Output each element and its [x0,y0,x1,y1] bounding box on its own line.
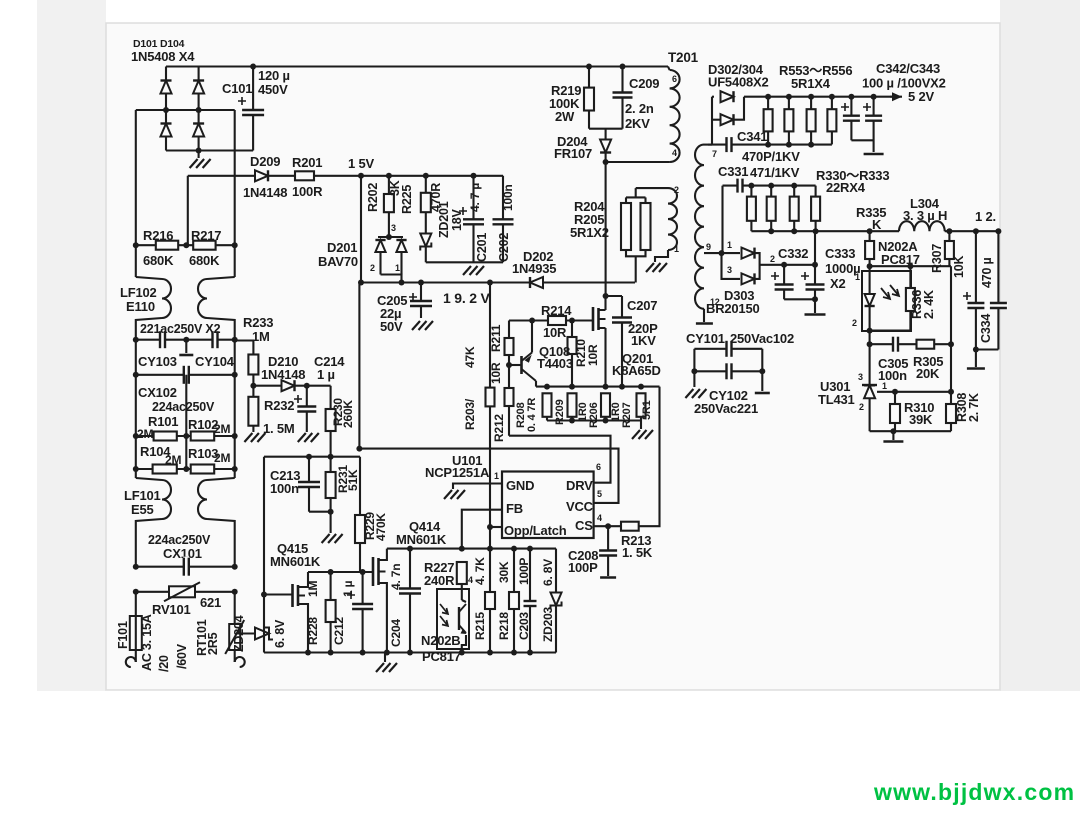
junction R330 tops [748,183,754,189]
capacitor C335 [989,303,1008,309]
junction C333 bottom [812,296,818,302]
wire BAV70 anode join [381,275,402,283]
svg-text:6. 8V: 6. 8V [541,559,555,586]
svg-text:4: 4 [597,513,602,523]
wire N202B collector [462,600,466,602]
junction pin9 [719,250,725,256]
svg-text:5 2V: 5 2V [908,89,934,104]
svg-text:1: 1 [674,244,679,254]
wire divider gnd stub [892,431,894,440]
wire GND pin [453,484,502,490]
svg-text:6: 6 [672,74,677,84]
ground CY101 [685,389,706,398]
junction C101 top [250,64,256,70]
svg-text:10R: 10R [586,344,600,366]
svg-text:BR20150: BR20150 [706,301,760,316]
capacitor CX102 [183,365,189,385]
wire Q415 drain [305,572,308,587]
diode D103 [160,124,171,137]
resistor R331 [767,197,776,221]
wire C342 branch [850,97,852,141]
svg-text:K: K [872,217,882,232]
junction VCC rail [358,280,364,286]
wire mid column [185,375,187,469]
svg-text:K8A65D: K8A65D [612,363,661,378]
svg-text:1N4148: 1N4148 [243,185,287,200]
wire VCC route [359,283,618,503]
wire CY101 top row [694,348,762,350]
svg-text:3: 3 [858,372,863,382]
wire Opp route [490,526,502,528]
wire LF101 right jog top [207,478,235,480]
wire R333 lead [815,186,817,197]
svg-text:6: 6 [596,462,601,472]
resistor R201 [295,171,314,180]
diode D201a [375,240,385,252]
wire comp row [870,343,951,345]
wire R330 lead2 [750,221,752,231]
svg-text:PC817: PC817 [881,252,920,267]
capacitor C333 [805,284,826,290]
diode D210 [282,380,295,391]
wire Q201 drain [604,296,606,310]
wire Q414 gate row [308,571,373,573]
junction C213 bottom [328,509,334,515]
svg-text:250Vac102: 250Vac102 [730,331,794,346]
svg-text:5R1X4: 5R1X4 [791,76,831,91]
wire R233 bottom [252,375,254,386]
wire RV101 row [136,591,235,593]
wire R219 branch [588,67,590,88]
wire BAV70 cathode bar row [378,236,403,238]
svg-text:ZD201: ZD201 [437,201,451,238]
inductor L304 [899,221,945,231]
svg-text:6. 8V: 6. 8V [273,619,287,648]
wire BAV70 anode right [400,252,402,275]
wire divider vertical [950,266,952,404]
capacitor C342 [842,115,861,121]
diode D102 [193,81,204,94]
svg-text:R207: R207 [621,402,633,428]
wire gate row [509,319,593,321]
wire CY101 right [761,349,763,391]
svg-text:CX101: CX101 [163,546,202,561]
wire R232 branch [252,386,254,432]
svg-text:C333: C333 [825,246,855,261]
junction R202 R225 top [386,173,392,179]
svg-text:C331: C331 [718,164,748,179]
shunt regulator U301 TL431 [864,385,875,398]
wire Q201 source [604,328,606,387]
capacitor C213 [297,482,321,488]
svg-text:1N4935: 1N4935 [512,261,556,276]
capacitor C101 [241,110,265,116]
svg-text:TL431: TL431 [818,392,855,407]
wire R330 lead [750,186,752,197]
wire R225 branch [425,176,427,193]
svg-text:260K: 260K [341,400,355,428]
wire C334 bottom join [976,348,999,350]
wire R336 branch [909,266,911,330]
capacitor CY104 [212,330,218,349]
wire R101 row [136,435,235,437]
svg-text:R211: R211 [489,324,503,352]
inductor LF101 right [198,480,207,519]
capacitor C202 [492,219,515,225]
svg-text:2. 4K: 2. 4K [922,290,936,319]
svg-text:9: 9 [706,242,711,252]
svg-text:2: 2 [859,402,864,412]
wire C343 branch [873,97,875,152]
svg-text:100n: 100n [270,481,299,496]
resistor R217 [193,241,215,250]
resistor R208 [543,393,552,417]
capacitor CY101 [726,340,732,358]
svg-text:4. 7n: 4. 7n [389,564,403,590]
svg-text:1N4148: 1N4148 [261,367,305,382]
wire R332 lead2 [793,221,795,231]
svg-text:224ac250V: 224ac250V [152,400,215,414]
svg-text:1: 1 [395,263,400,273]
svg-text:1 2.: 1 2. [975,209,996,224]
wire C213 bottom join [309,511,331,513]
wire C101 leads [252,67,254,151]
wire pin7 node [711,97,713,145]
resistor R227 [457,562,467,584]
resistor R332 [790,197,799,221]
junction FB row [407,546,413,552]
wire R203 column [489,283,491,449]
svg-text:N202B: N202B [421,633,460,648]
svg-text:C101: C101 [222,81,252,96]
svg-text:LF101: LF101 [124,488,161,503]
wire R310 branch [894,392,896,431]
diode D202 [530,277,543,288]
svg-text:2: 2 [770,254,775,264]
junction D210 row [250,383,256,389]
svg-text:1 5V: 1 5V [348,156,374,171]
svg-text:R202: R202 [366,183,380,212]
resistor R555 [807,109,816,131]
svg-text:100P: 100P [568,560,598,575]
wire ZD203 branch [555,549,557,653]
wire D302 cathode join [734,97,745,120]
svg-text:CS: CS [575,518,593,533]
wire R205 lead [644,197,646,203]
svg-text:FB: FB [506,501,523,516]
wire bridge column 1 [165,67,167,151]
ground C333 bar [805,313,826,316]
svg-text:/20: /20 [157,655,171,672]
wire R207 tail [640,417,642,421]
wire R218 branch [513,549,515,653]
capacitor C332 [774,284,795,290]
wire 12V raw rail [760,264,815,266]
svg-text:4. 7K: 4. 7K [473,557,487,585]
wire C331 riser to pin9 [721,186,723,254]
diode D304 [721,114,734,125]
svg-text:51K: 51K [346,469,360,491]
svg-text:1 µ: 1 µ [341,580,355,597]
svg-text:2: 2 [852,318,857,328]
wire Q414 drain [386,549,387,560]
wire C334 gnd stub [975,350,977,368]
wire net A row [264,456,360,458]
svg-text:UF5408X2: UF5408X2 [708,75,769,90]
capacitor C305 [893,336,899,353]
wire F101 lead [135,592,137,662]
svg-text:RV101: RV101 [152,602,191,617]
junction BAV70 top [386,234,392,240]
svg-text:C341: C341 [737,129,767,144]
junction drain node [603,293,609,299]
wire R231 branch [330,457,332,533]
wire C204 branch [409,549,411,653]
wire R331 lead [770,186,772,197]
resistor R335 [865,241,874,259]
svg-text:1: 1 [855,272,860,282]
wire Q108 emitter [531,321,533,353]
junction R101 row [133,433,139,439]
junction bank top [544,384,550,390]
resistor R102 [191,432,215,441]
junction divider bottom [890,428,896,434]
wire C214 branch [306,386,308,432]
svg-text:ZD203: ZD203 [541,606,555,642]
junction C332 top [781,262,787,268]
wire R202 branch [388,176,390,194]
svg-text:C203: C203 [517,612,531,640]
svg-text:/60V: /60V [175,643,189,669]
wire R332 lead [793,186,795,197]
wire 5.2V rail [744,96,902,98]
junction Q108 base [506,362,512,368]
wire secondary pin12 [703,309,705,322]
wire R307 branch [948,231,950,266]
junction CY row [133,337,139,343]
svg-text:R216: R216 [143,228,173,243]
svg-text:R217: R217 [191,228,221,243]
resistor R231 [326,472,336,498]
wire R204 lead [625,197,627,203]
wire R208 tail [546,417,548,421]
capacitor CY102 [726,362,732,380]
junction 5.2V rail [765,94,771,100]
schematic sheet [106,23,1000,690]
resistor R214 [548,316,566,325]
svg-text:1M: 1M [306,581,320,597]
wire C331 row [723,185,816,187]
svg-text:R307: R307 [930,244,944,273]
svg-text:2R5: 2R5 [206,632,220,655]
resistor R101 [154,432,177,441]
wire raw rail riser [814,231,816,265]
svg-text:20K: 20K [916,366,940,381]
wire bridge bottom row [166,149,253,151]
transistor Q108 T4403 [520,356,523,374]
wire bridge mid row [136,109,235,111]
wire 12V filter rail [751,230,899,232]
resistor R213 [621,522,639,531]
junction C334 bottom [973,347,979,353]
wire snubber bottom [589,128,623,130]
resistor R308 [946,404,956,423]
junction CX101 row [133,564,139,570]
watermark www.bjjdwx.com [874,779,1075,806]
wire C205 branch [420,283,422,319]
ground bridge [190,159,211,168]
TL431 gate bar [862,384,877,386]
wire net A left vertical [263,457,265,653]
thermistor RT101 [229,624,240,650]
svg-text:1. 5K: 1. 5K [622,545,653,560]
svg-text:100R: 100R [292,184,323,199]
svg-text:C334: C334 [979,314,993,343]
svg-text:221ac250V X2: 221ac250V X2 [140,322,221,336]
svg-text:T201: T201 [668,50,699,65]
wire R204 bottom node [635,256,637,282]
varistor RV101 [169,586,195,597]
svg-text:1: 1 [727,240,732,250]
wire R216 R217 row [136,244,235,246]
svg-text:471/1KV: 471/1KV [750,165,800,180]
ground bus symbol [376,663,397,672]
svg-text:C204: C204 [389,619,403,647]
capacitor C341 [726,136,732,153]
wire top DC rail [166,65,668,67]
svg-text:2. 7K: 2. 7K [967,393,981,422]
svg-text:C332: C332 [778,246,808,261]
wire zener block bottom [426,261,503,263]
svg-text:R232: R232 [264,398,294,413]
svg-text:CY103: CY103 [138,354,177,369]
ground C343 bar [864,153,884,156]
terminal AC right hook [235,657,245,667]
wire LED bottom row [870,330,911,332]
svg-text:680K: 680K [189,253,220,268]
svg-text:100n: 100n [501,184,515,211]
svg-text:0. 4 7R: 0. 4 7R [526,398,538,432]
resistor R202 [384,194,394,212]
wire R554 lead [788,97,790,110]
wire C213 branch [308,457,310,512]
svg-text:240R: 240R [424,573,455,588]
wire bridge column 2 [198,67,200,151]
wire R209 tail [571,417,573,421]
wire VCC vertical from 15V [360,176,362,283]
junction ground bus [305,650,311,656]
svg-text:100P: 100P [517,558,531,585]
svg-text:R214: R214 [541,303,572,318]
svg-text:22RX4: 22RX4 [826,180,866,195]
junction filter rail [768,228,774,234]
wire R204 top node [635,188,637,197]
wire LF101 left jog bottom [136,519,162,567]
svg-text:Opp/Latch: Opp/Latch [504,523,567,538]
ground aux winding [646,263,667,272]
wire Q415 gate row [264,593,293,595]
wire R219 bottom [588,111,590,129]
resistor R229 [355,515,365,543]
svg-text:120 µ: 120 µ [258,68,290,83]
diode D303a [742,248,755,259]
wire Q414 source [386,583,387,653]
resistor R209 [568,393,577,417]
capacitor C204 [398,588,422,594]
ground R232 [244,433,265,442]
wire R553 lead [767,97,769,110]
capacitor C207 [611,317,633,323]
wire LF101 left jog top [136,478,162,480]
wire R555 lead2 [810,131,812,144]
wire VCC rail [361,281,635,283]
junction snubber bottoms [765,142,771,148]
junction Opp node [487,524,493,530]
svg-text:X2: X2 [830,276,846,291]
svg-text:C201: C201 [475,233,489,262]
ground divider bar [883,440,903,443]
wire R211 column [508,321,510,436]
wire C212 branch [362,572,364,653]
wire aux pin2 [636,187,668,189]
wire divider bottom row [870,430,951,432]
wire TL431 ref [877,391,951,393]
svg-text:2KV: 2KV [625,116,650,131]
svg-text:39K: 39K [909,412,933,427]
wire secondary top [704,144,712,146]
wire opto anode row [870,265,951,267]
svg-text:450V: 450V [258,82,288,97]
diode D101 [160,81,171,94]
resistor R225 [421,193,431,212]
wire BAV70 anode left [379,252,381,275]
wire D304 anode stub [712,119,721,121]
diode D204 FR107 [600,140,611,153]
svg-text:R233: R233 [243,315,273,330]
transformer T201 aux winding [668,188,677,250]
wire snubber C341 row [708,144,832,146]
arrows N202B [440,604,448,626]
svg-text:470K: 470K [374,513,388,541]
svg-text:R225: R225 [400,185,414,214]
wire R331 lead2 [770,221,772,231]
wire R206 tail [604,417,606,421]
svg-text:30K: 30K [497,561,511,583]
junction R104 row [133,466,139,472]
svg-text:3: 3 [727,265,732,275]
wire CY mid stub [185,340,187,353]
svg-text:CY104: CY104 [195,354,235,369]
wire switching node [605,162,607,296]
capacitor CX101 [183,557,189,577]
wire R554 lead2 [788,131,790,144]
wire R210 branch [571,321,573,387]
phototransistor N202B [458,607,460,630]
resistor R553 [764,109,773,131]
wire Q108 collector [535,381,537,387]
svg-text:R203/: R203/ [463,398,477,430]
resistor R216 [156,241,178,250]
zener ZD203 [550,593,561,610]
capacitor C331 [737,178,743,194]
wire R202 to BAV70 [388,212,390,237]
svg-text:5R1: 5R1 [641,400,653,420]
svg-text:CY101: CY101 [686,331,725,346]
wire C201 branch [472,176,474,262]
capacitor C201 [462,219,485,225]
wire 15V rail [361,175,503,177]
svg-text:1M: 1M [252,329,270,344]
